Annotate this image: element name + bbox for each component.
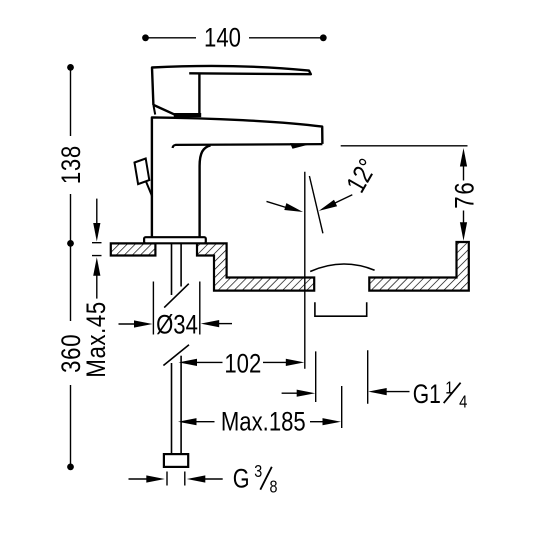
svg-text:4: 4 [459, 392, 467, 412]
svg-text:140: 140 [204, 24, 241, 54]
svg-text:Max.45: Max.45 [82, 301, 112, 377]
svg-text:G1: G1 [413, 380, 441, 410]
svg-text:102: 102 [224, 350, 261, 380]
svg-text:G: G [233, 464, 250, 494]
svg-text:8: 8 [270, 478, 278, 497]
svg-text:Max.185: Max.185 [221, 408, 306, 438]
svg-text:Ø34: Ø34 [156, 311, 198, 341]
svg-text:3: 3 [254, 463, 262, 482]
svg-text:76: 76 [451, 180, 481, 208]
svg-text:138: 138 [57, 145, 87, 184]
